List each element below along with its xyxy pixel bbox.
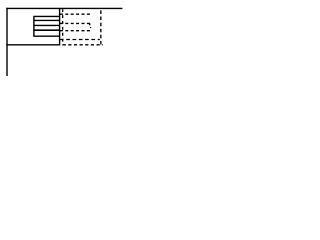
wire left vertical solid line <box>6 8 8 76</box>
dashed line 1 <box>60 13 90 15</box>
dashed box left edge <box>62 9 64 45</box>
dashed line 2 end hook <box>89 23 91 25</box>
bar 2/3 shared middle edge <box>33 29 59 31</box>
bar 1 bottom edge <box>33 19 59 21</box>
bar 1 top edge <box>33 15 59 17</box>
bar 3 bottom edge <box>33 35 59 37</box>
bar 2 top edge <box>33 24 59 26</box>
dashed box bottom edge <box>63 44 103 46</box>
node comb left vertical edge <box>33 16 35 36</box>
dashed box right edge <box>100 10 102 44</box>
dashed line 3 <box>60 30 91 32</box>
wire spine vertical solid line <box>59 8 61 45</box>
wire bottom horizontal solid line <box>6 44 59 46</box>
wire top horizontal solid line <box>6 7 122 9</box>
dashed line 2 <box>60 22 90 24</box>
dashed line 4 <box>60 39 100 41</box>
dashed vertical connector segment <box>90 27 92 28</box>
